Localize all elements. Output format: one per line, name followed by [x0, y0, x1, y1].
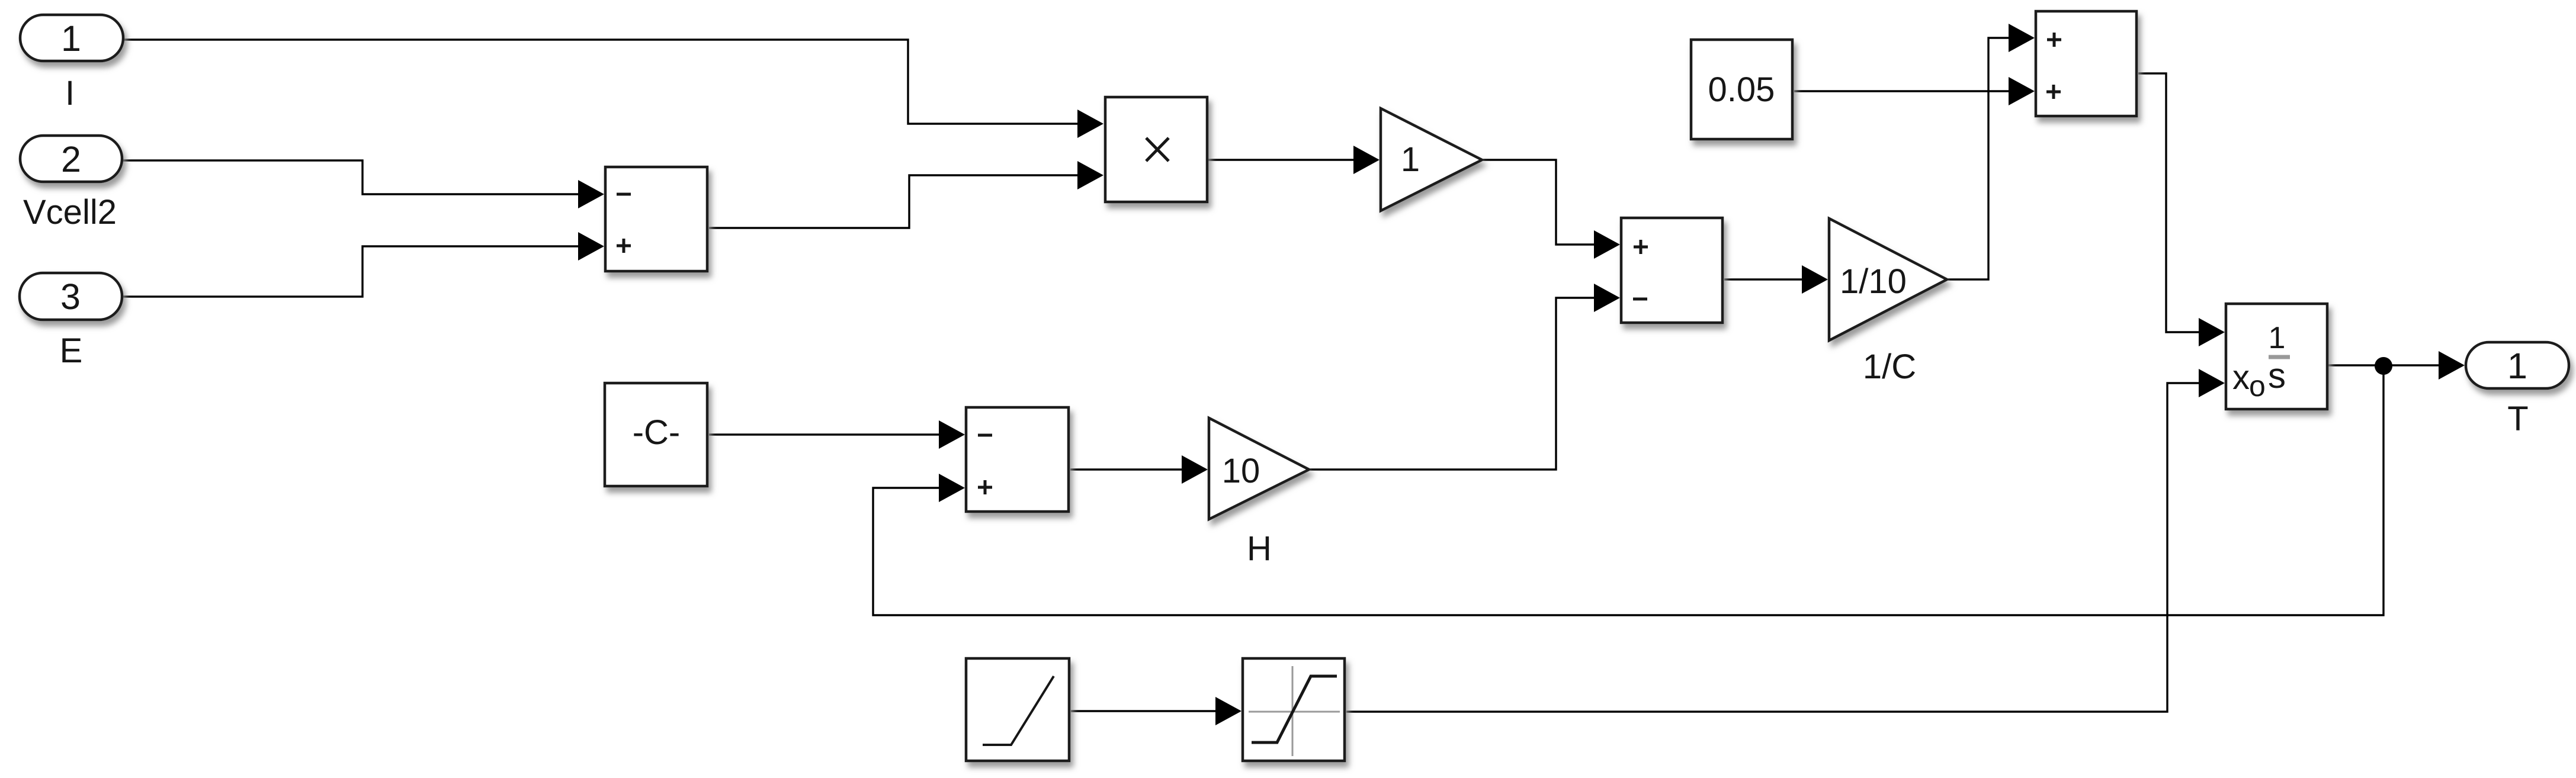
gain block 1	[1381, 108, 1482, 211]
wire sum2 to integrator in1	[2138, 73, 2223, 332]
wire gain 1/10 to sum2 plus1	[1948, 38, 2033, 279]
svg-text:2: 2	[61, 139, 81, 179]
wire sum1 to product	[709, 175, 1102, 228]
sum block sum4	[966, 407, 1069, 512]
arrowhead into sum2 plus2	[2009, 77, 2035, 105]
svg-text:3: 3	[60, 277, 81, 317]
gain block 1/10	[1829, 218, 1947, 340]
arrowhead into gain 1/10	[1802, 265, 1828, 294]
svg-text:s: s	[2268, 356, 2286, 396]
arrowhead into sum4 plus	[939, 474, 965, 502]
arrowhead into product in2	[1077, 161, 1103, 189]
gain block 10	[1209, 418, 1309, 519]
arrowhead into sum4 minus	[939, 420, 965, 449]
arrowhead into sum1 minus	[578, 180, 604, 208]
wire integrator to outport	[2328, 364, 2463, 366]
svg-text:o: o	[2249, 369, 2266, 403]
arrowhead into integrator in1	[2199, 318, 2225, 346]
arrowhead into product in1	[1077, 110, 1103, 138]
inport 2	[20, 136, 122, 182]
arrowhead into sum1 plus	[578, 232, 604, 261]
wire sum4 to gain10	[1070, 468, 1206, 470]
wire saturation to integrator xo	[1346, 383, 2223, 712]
product block	[1105, 97, 1207, 202]
wire port2 to sum1 minus	[123, 160, 602, 194]
arrowhead into gain10	[1182, 455, 1208, 484]
wire constant 0.05 to sum2 plus2	[1794, 90, 2033, 92]
arrowhead into sum2 plus1	[2009, 24, 2035, 52]
inport 1	[20, 15, 123, 61]
svg-text:T: T	[2507, 400, 2528, 438]
saturation block	[1243, 658, 1345, 761]
svg-text:-C-: -C-	[633, 413, 681, 452]
wire port1 to product	[124, 40, 1102, 124]
arrowhead into outport	[2439, 351, 2465, 380]
constant -C-	[605, 383, 707, 486]
wire product to gain1	[1208, 159, 1378, 160]
wire gain1 to sum3 plus	[1483, 160, 1618, 245]
svg-text:I: I	[65, 74, 75, 112]
wire constant -C- to sum4 minus	[709, 433, 963, 435]
arrowhead into integrator xo	[2199, 369, 2225, 397]
arrowhead into saturation	[1215, 697, 1242, 725]
svg-text:Vcell2: Vcell2	[23, 193, 117, 232]
arrowhead into sum3 plus	[1594, 230, 1620, 259]
inport 3	[20, 273, 122, 320]
constant 0.05	[1691, 40, 1792, 139]
arrowhead into gain1	[1353, 146, 1380, 174]
svg-text:1: 1	[2507, 346, 2527, 386]
wire feedback from junction to sum4 plus	[873, 366, 2383, 615]
sum block sum2	[2036, 11, 2136, 116]
sum block sum3	[1621, 218, 1722, 323]
svg-text:1: 1	[1401, 140, 1420, 179]
svg-text:1/10: 1/10	[1840, 262, 1907, 301]
svg-text:H: H	[1247, 529, 1272, 568]
arrowhead into sum3 minus	[1594, 284, 1620, 312]
svg-text:x: x	[2232, 358, 2250, 397]
sum block sum1	[605, 167, 707, 271]
svg-text:1/C: 1/C	[1863, 348, 1916, 386]
outport 1	[2466, 342, 2569, 388]
junction node dot	[2375, 357, 2392, 375]
wire sum3 to gain 1/10	[1724, 278, 1826, 280]
svg-text:1: 1	[61, 18, 81, 59]
svg-text:10: 10	[1222, 452, 1260, 490]
wire ramp to saturation	[1071, 710, 1240, 712]
wire port3 to sum1 plus	[123, 246, 602, 297]
svg-text:1: 1	[2269, 321, 2286, 355]
ramp block	[966, 658, 1069, 761]
integrator block 1/s	[2226, 304, 2327, 409]
svg-text:E: E	[60, 332, 83, 370]
wire gain10 to sum3 minus	[1310, 298, 1618, 470]
svg-text:0.05: 0.05	[1708, 70, 1775, 109]
